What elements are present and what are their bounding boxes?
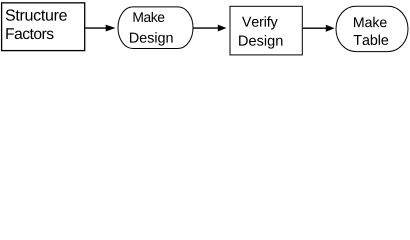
wire arrow 1 <box>85 25 115 32</box>
process box Structure Factors <box>2 3 85 51</box>
label Make (table node) <box>354 17 387 27</box>
process box Verify Design <box>230 6 302 55</box>
label Verify <box>242 16 278 29</box>
wire arrow 3 <box>303 25 335 32</box>
arrowhead <box>106 25 116 32</box>
background <box>0 0 410 60</box>
terminator Make Design <box>118 7 193 49</box>
wire segment <box>303 27 326 29</box>
wire segment <box>194 27 219 29</box>
label Make (design node) <box>133 12 164 22</box>
label Design (verify node) <box>239 35 282 49</box>
label Design (design node) <box>130 32 173 45</box>
wire arrow 2 <box>194 25 227 32</box>
arrowhead <box>218 25 227 32</box>
label Table <box>354 35 389 46</box>
arrowhead <box>326 25 335 32</box>
wire segment <box>85 27 106 29</box>
terminator Make Table <box>336 6 408 51</box>
label Factors <box>6 28 53 39</box>
label Structure <box>6 9 67 20</box>
